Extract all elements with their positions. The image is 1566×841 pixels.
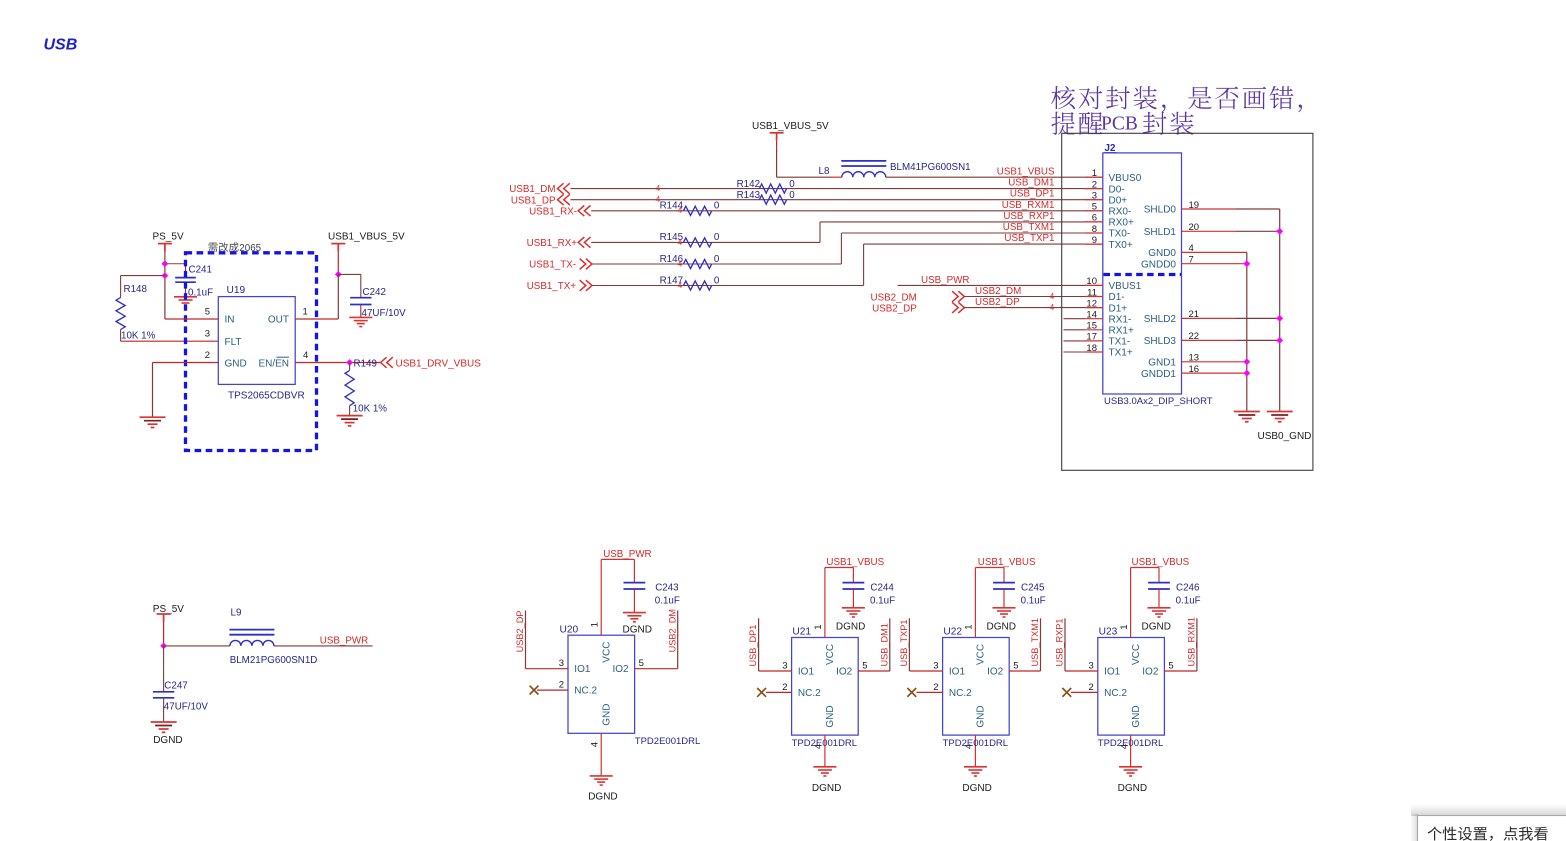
svg-text:BLM41PG600SN1: BLM41PG600SN1 [890, 162, 971, 173]
svg-text:TPD2E001DRL: TPD2E001DRL [635, 736, 700, 747]
svg-text:VBUS1: VBUS1 [1109, 281, 1142, 292]
svg-text:3: 3 [1089, 660, 1094, 671]
wire L8 to J2 pin1 USB1_VBUS [886, 176, 1103, 178]
svg-text:TX1+: TX1+ [1109, 348, 1133, 359]
svg-text:SHLD2: SHLD2 [1144, 314, 1177, 325]
svg-text:3: 3 [205, 329, 210, 340]
wire junction to C241 [165, 263, 186, 265]
核对封装，是否画错， [1051, 86, 1302, 112]
J2 dashed separator [1104, 273, 1182, 276]
wire junction to R148 [121, 275, 165, 277]
wire USB1_DP to pin3 [571, 199, 1103, 201]
wire down to C247 [163, 646, 165, 691]
svg-text:NC.2: NC.2 [574, 686, 597, 697]
svg-text:3: 3 [559, 658, 564, 669]
svg-text:R142: R142 [737, 179, 760, 190]
svg-text:PCB: PCB [1101, 113, 1138, 134]
resistor R149 [349, 363, 351, 371]
wire GND0 pin4 [1182, 251, 1247, 253]
svg-text:1: 1 [1119, 624, 1130, 629]
svg-text:U21: U21 [792, 627, 811, 638]
wire SHLD1 pin20 [1182, 230, 1237, 232]
svg-text:0: 0 [789, 190, 795, 201]
svg-text:USB2_DM: USB2_DM [667, 609, 677, 652]
svg-text:0.1uF: 0.1uF [655, 595, 680, 606]
resistor R142 [759, 184, 786, 193]
svg-text:L9: L9 [231, 607, 242, 618]
wire R148 bottom to FLT [120, 330, 122, 342]
svg-text:TX0-: TX0- [1109, 229, 1131, 240]
svg-text:USB1_VBUS: USB1_VBUS [1132, 557, 1190, 568]
svg-text:0: 0 [789, 179, 795, 190]
svg-text:NC.2: NC.2 [949, 688, 972, 699]
capacitor C247 [153, 691, 174, 693]
svg-text:USB2_DP: USB2_DP [872, 303, 917, 314]
svg-text:SHLD3: SHLD3 [1144, 336, 1177, 347]
wire SHLD0 pin19 [1182, 208, 1237, 210]
svg-text:GND: GND [825, 705, 836, 727]
node EN junction R149 [346, 359, 353, 366]
svg-text:5: 5 [1168, 660, 1173, 671]
svg-text:USB1_DM: USB1_DM [509, 184, 555, 195]
svg-text:4: 4 [1050, 302, 1055, 312]
wire GND pin down [152, 363, 154, 417]
svg-text:USB2_DM: USB2_DM [871, 292, 917, 303]
封装 line2 [1143, 112, 1194, 135]
ground under C241 [174, 297, 197, 306]
svg-text:5: 5 [205, 307, 210, 318]
wire GNDD1 pin16 [1182, 372, 1247, 374]
svg-text:2: 2 [782, 682, 787, 693]
svg-text:0.1uF: 0.1uF [1021, 595, 1046, 606]
wire/net USB_DM1 [889, 618, 891, 671]
svg-text:C245: C245 [1021, 582, 1045, 593]
node GNDD1 junction [1243, 370, 1250, 377]
wire USB1_TX+ jog to pin9 [592, 285, 864, 287]
wire USB1_TX- jog to pin8 [592, 263, 841, 265]
svg-text:0: 0 [714, 254, 720, 265]
svg-text:USB1_VBUS_5V: USB1_VBUS_5V [328, 232, 405, 243]
svg-text:DGND: DGND [962, 783, 991, 794]
wire stub pin 14 [1064, 318, 1086, 320]
svg-text:USB_PWR: USB_PWR [921, 275, 969, 286]
svg-text:IO1: IO1 [949, 667, 966, 678]
svg-text:SHLD0: SHLD0 [1144, 205, 1177, 216]
svg-text:IN: IN [225, 315, 235, 326]
svg-text:TPD2E001DRL: TPD2E001DRL [792, 738, 857, 749]
ground DGND below U20 [590, 776, 613, 785]
node SHLD2 junction [1276, 315, 1283, 322]
wire SHLD3 pin22 [1182, 339, 1237, 341]
svg-text:DGND: DGND [623, 625, 652, 636]
svg-text:47UF/10V: 47UF/10V [164, 701, 209, 712]
ground DGND above U23 [1148, 608, 1171, 617]
svg-text:USB1_RX-: USB1_RX- [529, 206, 577, 217]
svg-text:USB_PWR: USB_PWR [320, 635, 368, 646]
resistor R146 [683, 259, 711, 268]
svg-text:VCC: VCC [825, 644, 836, 665]
svg-text:USB3.0Ax2_DIP_SHORT: USB3.0Ax2_DIP_SHORT [1104, 396, 1213, 407]
node junction to C241 [162, 260, 169, 267]
wire USB2_DP to pin12 [964, 307, 1102, 309]
IC U20 TPD2E001DRL [568, 635, 635, 733]
ground shield left [1234, 412, 1260, 422]
wire USB2_DM to pin11 [964, 296, 1102, 298]
svg-text:C241: C241 [189, 264, 212, 275]
svg-text:FLT: FLT [225, 337, 242, 348]
svg-text:USB2_DM: USB2_DM [975, 286, 1021, 297]
svg-text:0.1uF: 0.1uF [870, 595, 895, 606]
svg-text:GND1: GND1 [1148, 358, 1176, 369]
svg-text:4: 4 [1050, 291, 1055, 301]
svg-text:VCC: VCC [1131, 644, 1142, 665]
svg-text:1: 1 [813, 624, 824, 629]
svg-text:TPD2E001DRL: TPD2E001DRL [1098, 738, 1163, 749]
svg-text:1: 1 [589, 622, 600, 627]
svg-text:USB1_VBUS: USB1_VBUS [978, 557, 1036, 568]
capacitor C246 [1158, 568, 1160, 583]
svg-text:0.1uF: 0.1uF [1176, 595, 1201, 606]
svg-text:USB_DM1: USB_DM1 [1008, 178, 1054, 189]
wire L9 to USB_PWR [274, 645, 373, 647]
wire stub pin 17 [1064, 340, 1086, 342]
connector J2 body [1103, 153, 1182, 394]
svg-text:USB_RXP1: USB_RXP1 [1055, 618, 1065, 666]
svg-text:0: 0 [714, 201, 720, 212]
wire VCC U20 [600, 559, 602, 635]
svg-text:R148: R148 [124, 284, 148, 295]
svg-text:DGND: DGND [987, 622, 1016, 633]
svg-text:5: 5 [862, 660, 867, 671]
resistor R144 [683, 206, 711, 215]
提醒 line2 [1051, 112, 1102, 135]
IC U21 TPD2E001DRL [792, 638, 859, 736]
node SHLD1 junction [1276, 228, 1283, 235]
svg-text:4: 4 [589, 742, 600, 747]
svg-text:TX0+: TX0+ [1109, 240, 1133, 251]
svg-text:GND: GND [976, 705, 987, 727]
wire GNDD0 pin7 [1182, 263, 1247, 265]
svg-text:IO1: IO1 [574, 664, 591, 675]
svg-text:GND: GND [1131, 705, 1142, 727]
wire to C242 [338, 273, 361, 275]
capacitor C244 [852, 568, 854, 583]
svg-text:GNDD0: GNDD0 [1141, 259, 1176, 270]
node junction to R148 [162, 272, 169, 279]
svg-text:TX1-: TX1- [1109, 337, 1131, 348]
svg-text:1: 1 [964, 624, 975, 629]
svg-text:4: 4 [303, 350, 308, 361]
ground DGND below U23 [1119, 767, 1142, 776]
svg-text:DGND: DGND [588, 791, 617, 802]
IC U22 TPD2E001DRL [943, 638, 1010, 736]
wire/net USB2_DM [677, 611, 679, 669]
svg-text:D0+: D0+ [1109, 195, 1128, 206]
svg-text:USB1_TX-: USB1_TX- [529, 260, 576, 271]
svg-text:U22: U22 [943, 627, 962, 638]
wire USB1_RX+ jog to pin6 [591, 241, 820, 243]
resistor R148 [116, 298, 125, 330]
svg-text:5: 5 [639, 658, 644, 669]
svg-text:IO1: IO1 [1104, 667, 1121, 678]
svg-text:VBUS0: VBUS0 [1109, 173, 1142, 184]
svg-text:L8: L8 [819, 166, 830, 177]
svg-text:C242: C242 [363, 287, 386, 298]
popup tooltip box [1411, 804, 1566, 816]
svg-text:VCC: VCC [976, 644, 987, 665]
svg-text:USB2_DP: USB2_DP [975, 297, 1020, 308]
wire/net USB_RXM1 [1196, 618, 1198, 671]
wire stub pin 15 [1064, 329, 1086, 331]
svg-text:0: 0 [714, 275, 720, 286]
svg-text:U20: U20 [560, 624, 579, 635]
svg-text:U23: U23 [1099, 627, 1118, 638]
svg-text:TPS2065CDBVR: TPS2065CDBVR [228, 390, 305, 401]
svg-text:USB1_DP: USB1_DP [511, 195, 556, 206]
wire VCC U23 [1130, 568, 1132, 638]
svg-text:4: 4 [678, 237, 683, 247]
svg-text:USB_TXP1: USB_TXP1 [899, 620, 909, 667]
wire/net USB_TXM1 [1040, 618, 1042, 671]
ground DGND below U22 [964, 767, 987, 776]
svg-text:10K 1%: 10K 1% [353, 404, 388, 415]
ground shield right [1267, 412, 1293, 422]
svg-text:USB2_DP: USB2_DP [515, 611, 525, 653]
node PS_5V junction [160, 643, 167, 650]
capacitor C241 [185, 264, 187, 278]
svg-text:USB1_TX+: USB1_TX+ [527, 281, 577, 292]
svg-text:2: 2 [559, 680, 564, 691]
svg-text:2: 2 [933, 682, 938, 693]
pin 4 GND wire U20 [600, 733, 602, 776]
svg-text:5: 5 [1013, 660, 1018, 671]
capacitor C242 [350, 297, 371, 299]
svg-text:EN/EN: EN/EN [258, 359, 289, 370]
svg-text:4: 4 [678, 205, 683, 215]
svg-text:USB_DM1: USB_DM1 [879, 623, 889, 666]
svg-text:USB_RXM1: USB_RXM1 [1002, 200, 1055, 211]
svg-text:GND: GND [225, 359, 247, 370]
inductor L9 ferrite bead [230, 640, 274, 646]
port arrow USB1_DRV_VBUS [381, 357, 387, 368]
svg-text:3: 3 [933, 660, 938, 671]
svg-text:TPD2E001DRL: TPD2E001DRL [943, 738, 1008, 749]
svg-text:USB1_VBUS: USB1_VBUS [826, 557, 884, 568]
svg-text:C246: C246 [1176, 582, 1200, 593]
node OUT junction [335, 271, 342, 278]
svg-text:USB: USB [44, 37, 78, 54]
resistor R147 [683, 281, 711, 290]
svg-text:GND0: GND0 [1148, 248, 1176, 259]
svg-text:D1+: D1+ [1109, 303, 1128, 314]
wire SHLD2 pin21 [1182, 317, 1237, 319]
svg-text:C244: C244 [870, 582, 894, 593]
pin 4 GND wire U23 [1130, 735, 1132, 767]
svg-text:4: 4 [678, 258, 683, 268]
svg-text:PS_5V: PS_5V [153, 232, 184, 243]
outer frame around J2 [1062, 133, 1313, 470]
blue dashed highlight box around U19 [186, 253, 317, 451]
svg-text:USB_RXP1: USB_RXP1 [1003, 211, 1054, 222]
capacitor C245 [1003, 568, 1005, 583]
svg-text:DGND: DGND [1118, 783, 1147, 794]
svg-text:USB1_VBUS_5V: USB1_VBUS_5V [752, 121, 829, 132]
wire/net USB_TXP1 [908, 618, 910, 671]
svg-text:VCC: VCC [601, 642, 612, 663]
ground DGND above U20 [623, 613, 646, 622]
svg-text:4: 4 [678, 280, 683, 290]
svg-text:D1-: D1- [1109, 292, 1125, 303]
capacitor C243 [633, 559, 635, 582]
ground under U19 GND [140, 417, 166, 427]
svg-text:USB_DP1: USB_DP1 [1010, 189, 1055, 200]
svg-text:USB_TXM1: USB_TXM1 [1030, 618, 1040, 667]
svg-text:USB_TXM1: USB_TXM1 [1003, 222, 1055, 233]
wire GND1 pin13 [1182, 361, 1247, 363]
svg-text:USB_DP1: USB_DP1 [748, 625, 758, 667]
svg-text:0: 0 [714, 232, 720, 243]
svg-text:DGND: DGND [836, 622, 865, 633]
svg-text:USB_TXP1: USB_TXP1 [1004, 233, 1054, 244]
svg-text:R149: R149 [354, 358, 377, 369]
svg-text:NC.2: NC.2 [798, 688, 821, 699]
svg-text:10K 1%: 10K 1% [121, 330, 156, 341]
wire/net USB2_DP [525, 611, 527, 669]
svg-text:GNDD1: GNDD1 [1141, 369, 1176, 380]
svg-text:USB0_GND: USB0_GND [1258, 431, 1312, 442]
resistor R145 [683, 238, 711, 247]
wire VCC U22 [974, 568, 976, 638]
svg-text:GND: GND [601, 704, 612, 726]
svg-text:2: 2 [1089, 682, 1094, 693]
svg-text:NC.2: NC.2 [1104, 688, 1127, 699]
svg-text:USB_RXM1: USB_RXM1 [1187, 617, 1197, 667]
wire to L9 [164, 645, 230, 647]
svg-text:IO2: IO2 [612, 664, 629, 675]
ground DGND under C247 [151, 722, 177, 732]
wire R148 top lead [120, 276, 122, 298]
svg-text:BLM21PG600SN1D: BLM21PG600SN1D [230, 655, 318, 666]
IC U19 TPS2065CDBVR power switch [218, 297, 295, 385]
wire USB1_DM to pin2 [571, 188, 1103, 190]
svg-text:D0-: D0- [1109, 184, 1125, 195]
wire stub pin 18 [1064, 351, 1086, 353]
pin 4 GND wire U21 [824, 735, 826, 767]
svg-text:USB_PWR: USB_PWR [603, 549, 651, 560]
svg-text:4: 4 [656, 183, 661, 193]
svg-text:IO2: IO2 [836, 667, 853, 678]
svg-text:USB1_RX+: USB1_RX+ [527, 238, 578, 249]
IC U23 TPD2E001DRL [1098, 638, 1165, 736]
svg-text:U19: U19 [227, 285, 246, 296]
svg-text:DGND: DGND [812, 783, 841, 794]
wire USB1_RX- to pin5 [591, 210, 1103, 212]
svg-text:C247: C247 [164, 681, 187, 692]
node GNDD0 junction [1243, 260, 1250, 267]
annotation 需改成2065 [209, 242, 239, 252]
svg-text:RX1+: RX1+ [1109, 326, 1134, 337]
wire VCC U21 [824, 568, 826, 638]
svg-text:2: 2 [205, 350, 210, 361]
svg-text:RX0-: RX0- [1109, 207, 1132, 218]
svg-text:RX1-: RX1- [1109, 314, 1132, 325]
svg-text:USB1_VBUS: USB1_VBUS [997, 167, 1055, 178]
svg-text:DGND: DGND [153, 735, 182, 746]
svg-text:DGND: DGND [1142, 622, 1171, 633]
ground DGND below U21 [813, 767, 836, 776]
inductor L8 ferrite bead [842, 172, 886, 178]
svg-text:SHLD1: SHLD1 [1144, 227, 1177, 238]
svg-text:USB1_DRV_VBUS: USB1_DRV_VBUS [396, 358, 482, 369]
svg-text:IO2: IO2 [1142, 667, 1159, 678]
popup text [1428, 827, 1548, 841]
svg-text:OUT: OUT [268, 315, 289, 326]
wire/net USB_RXP1 [1064, 618, 1066, 671]
ground under C242 [349, 317, 372, 326]
svg-text:C243: C243 [655, 582, 679, 593]
pin 4 GND wire U22 [974, 735, 976, 767]
svg-text:3: 3 [782, 660, 787, 671]
ground under R149 [337, 416, 363, 426]
svg-text:IO2: IO2 [987, 667, 1004, 678]
node SHLD3 junction [1276, 337, 1283, 344]
svg-text:PS_5V: PS_5V [153, 604, 184, 615]
svg-text:IO1: IO1 [798, 667, 815, 678]
svg-text:R143: R143 [737, 190, 761, 201]
wire USB_PWR to pin10 [898, 284, 1103, 286]
resistor R143 [759, 195, 786, 204]
ground DGND above U22 [993, 608, 1016, 617]
svg-text:1: 1 [303, 307, 308, 318]
wire PS_5V down to IN [164, 252, 166, 319]
node GND1 junction [1243, 358, 1250, 365]
ground DGND above U21 [842, 608, 865, 617]
svg-text:RX0+: RX0+ [1109, 218, 1134, 229]
wire/net USB_DP1 [758, 618, 760, 671]
